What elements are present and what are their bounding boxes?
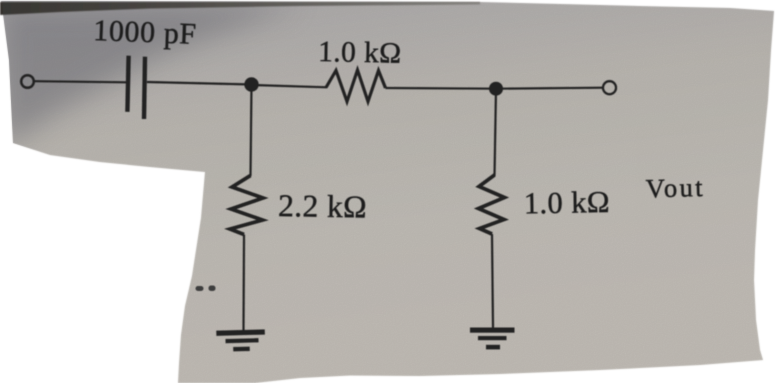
wire R3 to ground	[492, 234, 493, 329]
top-left shadow on paper	[0, 3, 300, 150]
wire input to capacitor	[34, 81, 126, 82]
stray ink dots	[196, 286, 216, 292]
resistor R1 1.0 kOhm (series)	[326, 70, 386, 102]
output terminal	[603, 81, 616, 94]
node A junction dot	[244, 77, 258, 91]
input terminal	[21, 75, 34, 88]
resistor R2 2.2 kOhm (shunt)	[230, 176, 263, 235]
svg-text:1.0 kΩ: 1.0 kΩ	[524, 185, 611, 220]
ground G1	[216, 329, 265, 351]
wire node B to output terminal	[496, 88, 603, 89]
svg-text:1000 pF: 1000 pF	[93, 14, 198, 51]
wire R2 to ground	[242, 235, 245, 332]
ground G2	[470, 328, 515, 350]
svg-text:Vout: Vout	[645, 172, 705, 204]
capacitor C1 1000 pF	[127, 56, 145, 119]
top dark band	[0, 2, 480, 15]
wire node A down to R2	[251, 85, 252, 177]
resistor R3 1.0 kOhm (shunt)	[479, 175, 505, 234]
wire R1 to node B	[386, 87, 498, 90]
svg-text:2.2 kΩ: 2.2 kΩ	[278, 188, 367, 225]
wire node B down to R3	[495, 89, 497, 176]
wire capacitor to node A	[147, 82, 252, 85]
wire node A to resistor R1	[252, 85, 328, 87]
svg-text:1.0 kΩ: 1.0 kΩ	[318, 36, 402, 70]
node B junction dot	[489, 82, 503, 96]
